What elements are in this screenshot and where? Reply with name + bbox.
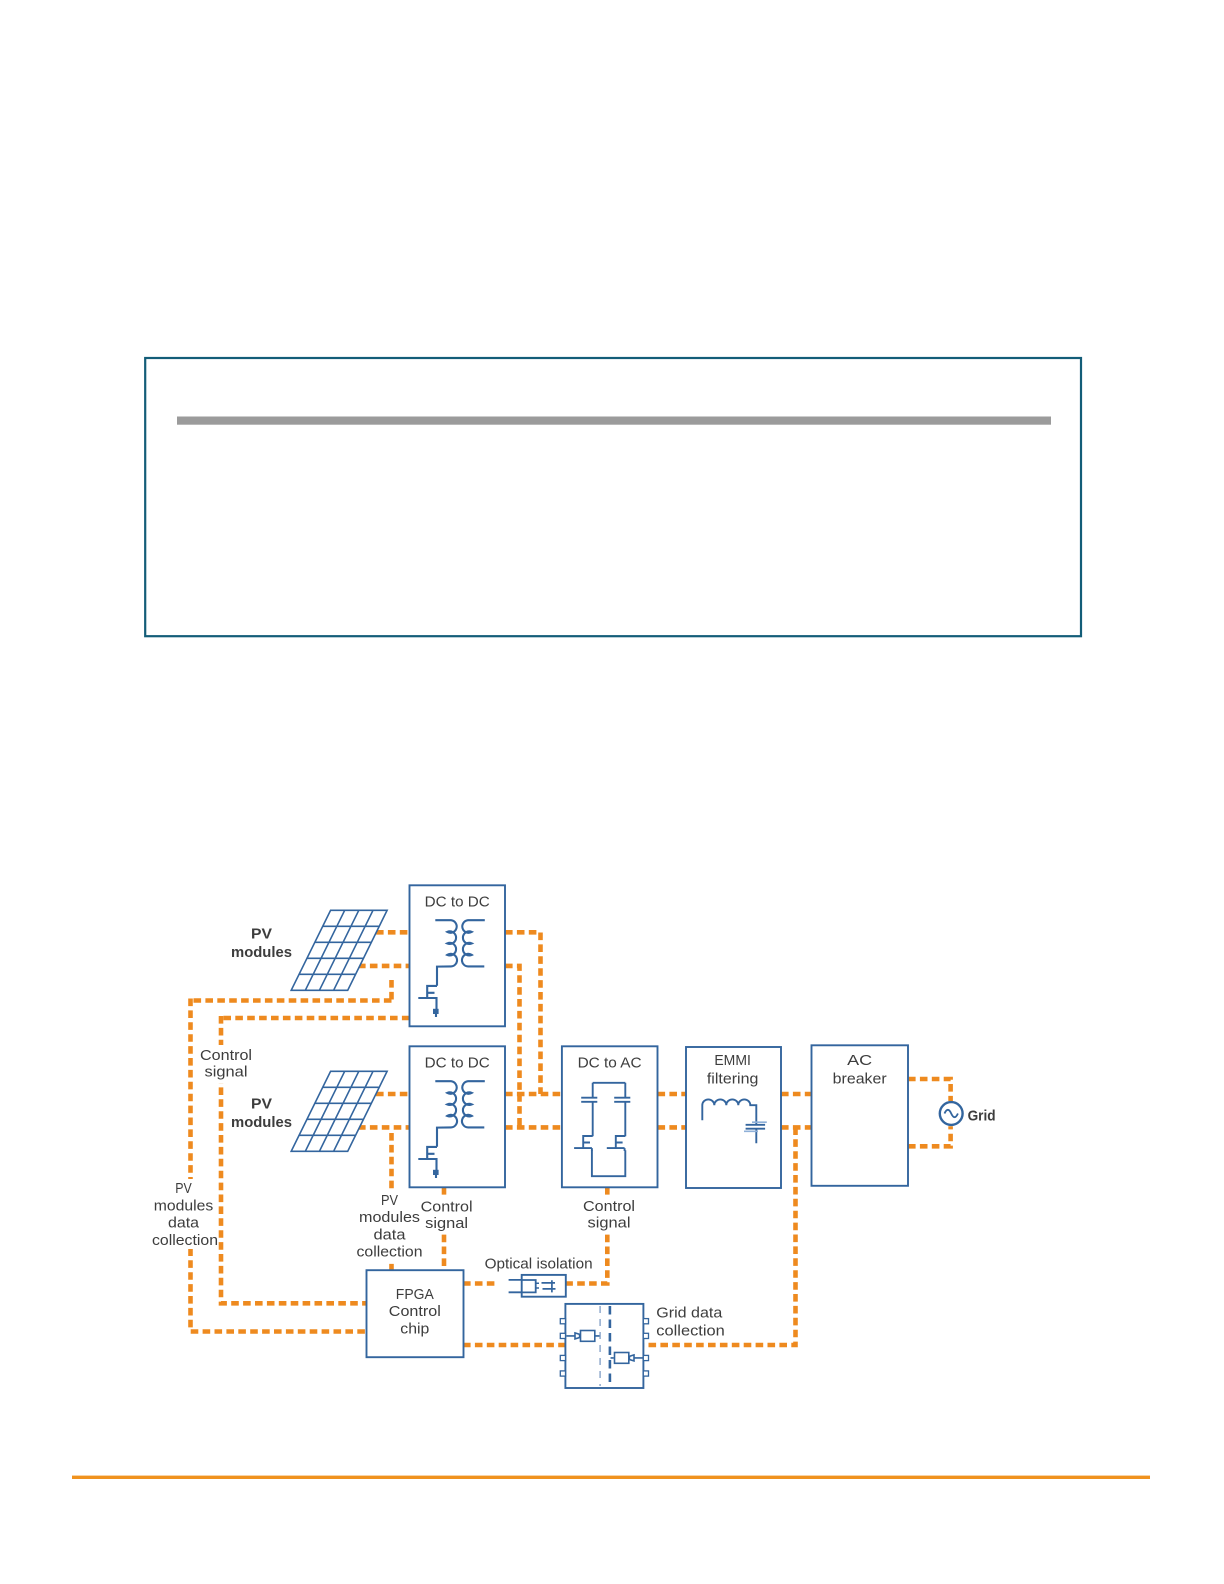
MOSFET Q1 source pad: [433, 1009, 439, 1014]
IC pin L3: [560, 1355, 565, 1360]
inductor L1: [702, 1099, 756, 1124]
mask under control-signal label 3: [580, 1196, 639, 1233]
isolation dashed line (thick): [609, 1306, 612, 1386]
svg-text:AC: AC: [847, 1053, 872, 1069]
svg-text:modules: modules: [231, 944, 292, 961]
wire H4: DC-to-AC to EMMI -: [658, 1125, 687, 1130]
EMMI filtering box: [686, 1047, 781, 1188]
FPGA control chip box: [367, 1270, 464, 1357]
transformer T1 windings: [435, 920, 485, 986]
PV array 1 (solar panel): [291, 910, 387, 990]
svg-text:Optical isolation: Optical isolation: [485, 1257, 593, 1273]
grid AC source symbol: [940, 1102, 963, 1125]
grid sine wave: [945, 1110, 958, 1117]
svg-text:Control: Control: [389, 1304, 441, 1320]
wire B1: PV array 1 - to DC-DC 1: [358, 964, 410, 969]
DC-to-AC inverter box: [562, 1046, 658, 1187]
capacitor C2 (right): [614, 1098, 630, 1102]
wire E: DC-DC 1 out+ to bus: [505, 932, 541, 1094]
svg-text:PV: PV: [251, 1096, 272, 1113]
wire V2: control signal bus: [221, 1016, 367, 1303]
transducer symbol (left half): [567, 1333, 600, 1339]
wire ACBR top to grid: [908, 1079, 951, 1101]
svg-text:Control: Control: [200, 1048, 252, 1064]
wire V1: PV modules data collection bus: [191, 999, 367, 1332]
svg-text:data: data: [168, 1216, 200, 1232]
IC pin R3: [643, 1355, 648, 1360]
wire FPGA to optocoupler: [463, 1281, 498, 1286]
IC pin L2: [560, 1333, 565, 1338]
svg-text:Control: Control: [421, 1200, 473, 1216]
svg-text:EMMI: EMMI: [714, 1053, 751, 1069]
mask under control-signal label 1: [197, 1045, 255, 1083]
capacitor C1 (left): [581, 1098, 597, 1102]
optocoupler U2 inner bracket: [523, 1280, 536, 1292]
svg-text:modules: modules: [231, 1114, 292, 1131]
svg-text:DC to DC: DC to DC: [425, 895, 490, 911]
svg-text:Grid: Grid: [968, 1108, 996, 1125]
svg-text:collection: collection: [152, 1233, 218, 1249]
MOSFET Q3 (left leg): [574, 1136, 593, 1151]
svg-text:PV: PV: [251, 926, 272, 943]
mask under PV data label 2: [354, 1190, 426, 1261]
optocoupler U2 LED bar: [536, 1283, 539, 1288]
wire A2: PV array 2 + to DC-DC 2: [376, 1092, 410, 1097]
svg-text:DC to AC: DC to AC: [578, 1056, 642, 1072]
svg-text:data: data: [374, 1227, 407, 1243]
IC pin R2: [643, 1333, 648, 1338]
wire FPGA to grid data collection: [463, 1343, 566, 1348]
transducer symbol (right half): [611, 1355, 643, 1361]
mask under PV data label 1: [149, 1179, 218, 1249]
wire V3: grid data drop: [643, 1127, 796, 1345]
capacitor C5 ghost plates: [744, 1122, 767, 1131]
svg-text:signal: signal: [205, 1065, 248, 1081]
wire H1: DC-DC 2 to DC-to-AC +: [505, 1092, 562, 1097]
MOSFET Q2: [418, 1147, 437, 1178]
grid data collection IC box: [565, 1304, 643, 1388]
DC-DC converter 1 box: [410, 885, 506, 1026]
wire H3: DC-to-AC to EMMI +: [658, 1092, 687, 1097]
PV array 2 (solar panel): [291, 1071, 387, 1151]
svg-text:filtering: filtering: [707, 1072, 759, 1088]
wire DC-AC control signal: [567, 1187, 608, 1284]
svg-text:modules: modules: [359, 1210, 420, 1226]
MOSFET Q1: [418, 986, 437, 1017]
svg-text:chip: chip: [400, 1321, 429, 1337]
wire H2: DC-DC 2 to DC-to-AC -: [505, 1125, 562, 1130]
wire stub1: PV1 data tap: [389, 980, 394, 1001]
MOSFET Q2 source pad: [433, 1170, 439, 1175]
bottom page rule: [72, 1476, 1150, 1479]
H-bridge rails and legs: [592, 1083, 625, 1176]
IC pin R4: [643, 1371, 648, 1376]
wire H6: EMMI to AC breaker -: [781, 1125, 812, 1130]
capacitor C5: [746, 1125, 766, 1143]
wire C2: control signal DC-DC 2 to FPGA: [442, 1187, 447, 1271]
optocoupler input leads: [509, 1280, 522, 1292]
MOSFET Q4 (right leg): [607, 1136, 626, 1151]
svg-text:Control: Control: [583, 1199, 635, 1215]
gray title bar: [177, 417, 1051, 425]
svg-text:signal: signal: [588, 1216, 631, 1232]
AC breaker box: [812, 1045, 909, 1186]
svg-text:breaker: breaker: [833, 1072, 887, 1088]
isolation dashed line (thin): [599, 1306, 601, 1386]
IC pin L4: [560, 1371, 565, 1376]
wire A1: PV array 1 + to DC-DC 1: [376, 930, 410, 935]
svg-text:signal: signal: [425, 1216, 468, 1232]
wire B2: PV array 2 - to DC-DC 2: [358, 1125, 410, 1130]
svg-text:PV: PV: [381, 1193, 398, 1209]
IC pin L1: [560, 1319, 565, 1324]
IC pin R1: [643, 1319, 648, 1324]
DC-DC converter 2 box: [410, 1046, 506, 1187]
callout box: [145, 358, 1081, 636]
svg-text:PV: PV: [175, 1181, 192, 1197]
transformer T2 windings: [435, 1081, 485, 1147]
svg-text:collection: collection: [656, 1324, 725, 1340]
svg-text:Grid data: Grid data: [656, 1306, 723, 1322]
wire C: control signal to DC-DC 1: [221, 1016, 410, 1021]
svg-text:modules: modules: [154, 1198, 214, 1214]
optocoupler U2 box: [522, 1275, 566, 1297]
wire ACBR bottom to grid: [908, 1126, 951, 1146]
wire H5: EMMI to AC breaker +: [781, 1092, 812, 1097]
svg-text:collection: collection: [357, 1245, 423, 1261]
optocoupler U2 phototransistor: [542, 1280, 556, 1292]
svg-text:DC to DC: DC to DC: [425, 1056, 490, 1072]
svg-text:FPGA: FPGA: [396, 1287, 434, 1303]
wire stub2: PV2 data tap to FPGA: [389, 1133, 394, 1271]
wire D: PV1 data run: [191, 998, 392, 1003]
mask under control-signal label 2: [417, 1196, 476, 1232]
wire F: DC-DC 1 out- to bus: [505, 966, 520, 1128]
